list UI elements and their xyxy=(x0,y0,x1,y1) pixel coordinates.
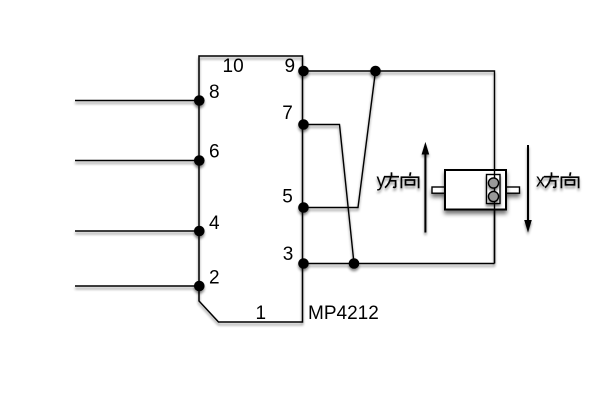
svg-text:8: 8 xyxy=(209,82,220,103)
pin 3 dot xyxy=(298,258,309,269)
motor M1 left shaft xyxy=(432,187,445,193)
pin 6 dot xyxy=(194,155,205,166)
svg-text:3: 3 xyxy=(283,244,294,265)
wire pin 7 crossover to pin-3 net xyxy=(303,125,355,264)
svg-text:MP4212: MP4212 xyxy=(308,303,379,324)
label x方向 xyxy=(536,171,579,191)
junction on pin 3 wire xyxy=(349,258,360,269)
pin 2 dot xyxy=(194,281,205,292)
pin 7 dot xyxy=(298,119,309,130)
svg-text:1: 1 xyxy=(256,303,267,324)
svg-text:y: y xyxy=(377,171,386,191)
motor terminal A xyxy=(488,178,498,188)
motor terminal block xyxy=(487,175,501,204)
glyph 方 xyxy=(384,172,399,187)
motor terminal B xyxy=(488,191,498,201)
wire pin 5 crossover to pin-9 net xyxy=(303,71,376,208)
svg-text:4: 4 xyxy=(209,213,220,234)
pin 9 dot xyxy=(298,66,309,77)
motor M1 right shaft xyxy=(506,187,520,193)
svg-text:9: 9 xyxy=(285,56,296,77)
glyph 方 xyxy=(544,172,559,187)
wire input to pin 8 xyxy=(75,100,199,102)
wire through motor terminals xyxy=(494,170,496,264)
wire input to pin 2 xyxy=(75,285,199,287)
svg-text:x: x xyxy=(536,171,545,191)
wire pin 3 to right rail xyxy=(303,263,495,265)
junction on pin 9 wire xyxy=(370,66,381,77)
wire input to pin 6 xyxy=(75,160,199,162)
motor M1 body xyxy=(445,170,506,210)
IC U1 MP4212 body xyxy=(199,56,303,322)
label y方向 xyxy=(377,171,419,191)
svg-text:10: 10 xyxy=(223,56,244,77)
svg-text:2: 2 xyxy=(209,268,220,289)
svg-text:7: 7 xyxy=(282,103,293,124)
wire pin 9 to right rail xyxy=(303,71,495,264)
wire input to pin 4 xyxy=(75,230,199,232)
pin 4 dot xyxy=(194,226,205,237)
glyph 向 xyxy=(561,172,578,188)
pin 5 dot xyxy=(298,202,309,213)
svg-text:5: 5 xyxy=(282,187,293,208)
glyph 向 xyxy=(401,172,418,188)
arrow x-direction (down) xyxy=(524,145,532,233)
arrow y-direction (up) xyxy=(422,142,430,233)
pin 8 dot xyxy=(194,95,205,106)
svg-text:6: 6 xyxy=(209,142,220,163)
